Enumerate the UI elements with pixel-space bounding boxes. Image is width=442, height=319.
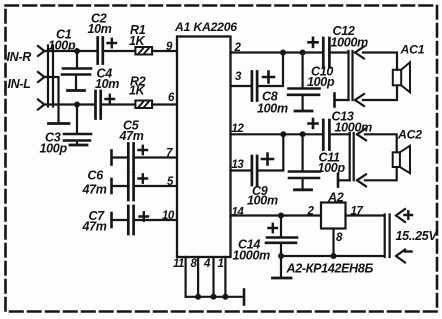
wire pin 12 rail to C13 xyxy=(231,133,322,135)
capacitor C1 100p xyxy=(62,69,91,75)
wire C5 to pin 7 xyxy=(135,156,177,158)
capacitor C11 100p xyxy=(289,172,320,179)
connector arrow input pin 3 (IN-L) xyxy=(38,100,44,110)
plus sign C7 xyxy=(140,212,149,220)
plus sign C4 xyxy=(106,95,115,103)
wire C1 to ground xyxy=(75,76,77,90)
junction dot C14 bottom xyxy=(278,253,284,259)
resistor R2 1K xyxy=(135,101,152,109)
svg-text:A1 KA2206: A1 KA2206 xyxy=(174,20,237,34)
ground bar (C10) xyxy=(295,110,312,113)
loudspeaker AC1 xyxy=(393,70,401,86)
ground bus under IC xyxy=(186,296,244,298)
svg-text:15..25V: 15..25V xyxy=(396,229,439,243)
capacitor C2 10m (coupling, IN-R) xyxy=(98,38,103,64)
wire pin 3 to C8 xyxy=(231,85,251,87)
voltage regulator A2 body xyxy=(321,203,346,229)
wire C9 to pin12 rail (riser) xyxy=(258,134,283,170)
ground bar (C7) xyxy=(110,213,113,227)
wire C14 bottom to ground symbol xyxy=(280,256,282,277)
svg-text:100p: 100p xyxy=(48,39,76,53)
capacitor C7 47m xyxy=(128,206,133,234)
capacitor C13 1000m xyxy=(323,120,329,150)
IC bottom pin stubs 11 8 4 1 xyxy=(186,257,226,297)
node junction dot on IN-L rail xyxy=(74,102,80,108)
connector arrow input pin 2 (common) xyxy=(38,72,44,82)
capacitor C8 100m xyxy=(252,72,257,101)
capacitor C3 100p xyxy=(64,134,91,141)
svg-text:14: 14 xyxy=(232,207,245,219)
svg-text:47m: 47m xyxy=(82,220,107,234)
svg-text:1K: 1K xyxy=(129,34,146,48)
ground bar (main) xyxy=(273,277,292,280)
ground bar (input common) xyxy=(49,122,70,125)
connector arrow power + xyxy=(396,209,405,222)
svg-text:100p: 100p xyxy=(318,161,346,175)
svg-text:2: 2 xyxy=(307,206,315,218)
wire C4 to R2 xyxy=(102,103,135,105)
capacitor C4 10m (coupling, IN-L) xyxy=(96,91,101,119)
connector double line (input socket) xyxy=(48,46,53,107)
wire IN-R node to C1 xyxy=(76,51,78,68)
plus sign C14 xyxy=(269,224,278,232)
wire C8 to pin2 rail (riser) xyxy=(258,53,283,87)
junction dot C11/pin12 xyxy=(300,131,306,137)
svg-text:4: 4 xyxy=(203,258,211,270)
svg-text:1000m: 1000m xyxy=(233,249,271,263)
wire R1 to pin 9 xyxy=(152,50,177,52)
wire A2 pin8 down to ground rail xyxy=(332,229,334,257)
wire ground to AC2 connector xyxy=(338,179,350,181)
wire C3 to ground xyxy=(76,142,78,145)
wire IN-L node to C3 xyxy=(76,105,78,134)
svg-text:IN-L: IN-L xyxy=(8,77,31,91)
plus sign C5 xyxy=(139,146,148,154)
wire pin 14 rail to A2 xyxy=(231,214,322,216)
capacitor C5 47m xyxy=(128,144,133,172)
connector arrow AC1 + xyxy=(355,47,364,59)
svg-text:1K: 1K xyxy=(129,84,146,98)
wire C10 to ground xyxy=(302,96,304,110)
wire common pin to ground xyxy=(44,77,58,123)
connector double line (AC2) xyxy=(350,133,354,180)
connector double line (AC1) xyxy=(349,51,353,100)
svg-text:AC2: AC2 xyxy=(397,128,422,142)
wire C2 to R1 xyxy=(104,50,135,52)
svg-text:100m: 100m xyxy=(247,194,278,208)
ground bar (C11) xyxy=(295,188,312,191)
wire ground bar to C5 xyxy=(112,156,128,158)
wire AC2 bottom to speaker xyxy=(365,167,397,180)
svg-text:10m: 10m xyxy=(88,22,112,36)
loudspeaker AC2 xyxy=(393,152,400,167)
wire pin 13 to C9 xyxy=(231,169,251,171)
wire C13 to AC2 connector xyxy=(331,133,350,135)
junction dots on bus xyxy=(195,294,201,300)
svg-text:C6: C6 xyxy=(88,169,105,183)
wire AC1 bottom to speaker xyxy=(363,85,397,100)
resistor R1 1K xyxy=(135,47,152,55)
wire pin 12 node to C11 xyxy=(302,134,304,170)
svg-text:100m: 100m xyxy=(257,102,288,116)
plus sign C9 xyxy=(262,154,273,165)
wire AC2 top to speaker xyxy=(365,134,397,152)
wire ground to AC1 connector xyxy=(335,99,349,101)
svg-text:AC1: AC1 xyxy=(400,43,425,57)
plus sign C13 xyxy=(309,119,318,128)
resistor R2 hatch marks xyxy=(139,102,149,107)
svg-text:100p: 100p xyxy=(40,142,68,156)
wire AC1 top to speaker xyxy=(363,53,397,70)
ground bar (IC bus) xyxy=(243,290,246,305)
connector arrow AC2 - xyxy=(357,174,366,186)
wire pin 2 node to C10 xyxy=(302,53,304,88)
wire C14 to ground rail xyxy=(280,244,282,256)
svg-text:100p: 100p xyxy=(307,75,335,89)
wire R2 to pin 6 xyxy=(152,103,177,105)
plus sign C6 xyxy=(139,174,148,182)
junction dot C8/pin2 xyxy=(280,50,286,56)
ground bar (C1) xyxy=(68,89,85,92)
wire pin 14 node to C14 xyxy=(280,216,282,237)
svg-text:10m: 10m xyxy=(95,77,119,91)
svg-text:IN-R: IN-R xyxy=(7,50,32,64)
node junction dot on IN-R rail xyxy=(74,48,80,54)
wire C12 to AC1 connector xyxy=(331,51,349,53)
wire IN-L rail to C4 xyxy=(44,103,94,105)
junction dot C9/pin12 xyxy=(280,131,286,137)
plus sign C8 xyxy=(263,72,274,83)
junction dot C10/pin2 xyxy=(300,50,306,56)
connector arrow AC1 - xyxy=(355,94,364,106)
ground bar (C5) xyxy=(110,151,113,165)
capacitor C6 47m xyxy=(128,172,133,200)
wire C6 to pin 5 xyxy=(135,185,177,187)
plus sign C12 xyxy=(309,38,318,47)
plus sign C2 xyxy=(108,39,117,47)
svg-text:11: 11 xyxy=(173,258,184,270)
ground bar (AC1 return) xyxy=(333,94,336,107)
ground bar (C6) xyxy=(110,179,113,193)
junction dot C14 top xyxy=(278,213,284,219)
junction dot A2 pin8 xyxy=(331,253,337,259)
wire C11 to ground xyxy=(302,179,304,189)
op-amp / IC A1 KA2206 body xyxy=(177,37,231,258)
svg-text:1: 1 xyxy=(218,258,224,270)
wire ground bar to C7 xyxy=(112,219,128,221)
wire ground bar to C6 xyxy=(112,185,128,187)
svg-text:A2-КР142ЕН8Б: A2-КР142ЕН8Б xyxy=(286,262,374,276)
ground bar (AC2 return) xyxy=(337,174,340,187)
svg-text:47m: 47m xyxy=(119,129,144,143)
svg-text:A2: A2 xyxy=(327,191,344,205)
capacitor C12 1000m xyxy=(323,38,329,68)
ground bar (C3) xyxy=(70,144,87,147)
resistor R1 hatch marks xyxy=(139,49,149,54)
ground rail bottom xyxy=(281,255,384,257)
plus sign power xyxy=(405,211,413,219)
svg-text:13: 13 xyxy=(232,159,245,171)
wire A2 pin17 to power connector xyxy=(346,214,385,216)
capacitor C9 100m xyxy=(252,156,257,185)
minus sign power xyxy=(405,250,412,252)
capacitor C10 100p xyxy=(288,89,320,95)
wire IN-R rail to C2 xyxy=(44,50,96,52)
capacitor C14 1000m xyxy=(266,238,297,243)
connector arrow input pin 1 (IN-R) xyxy=(38,46,44,56)
connector double line (power) xyxy=(385,215,390,258)
svg-text:47m: 47m xyxy=(82,183,107,197)
connector arrow power - xyxy=(396,250,405,263)
wire C7 to pin 10 xyxy=(135,219,177,221)
connector arrow AC2 + xyxy=(357,128,366,140)
wire pin 2 rail to C12 xyxy=(231,51,322,53)
